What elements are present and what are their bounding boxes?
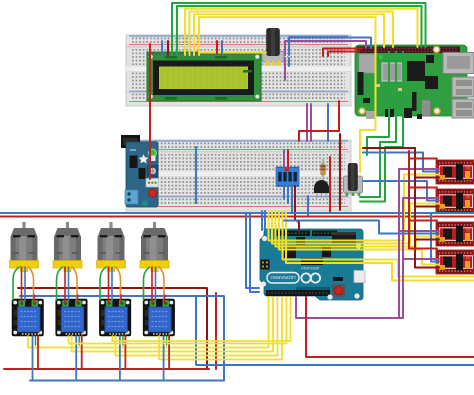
wire xyxy=(339,134,341,210)
wire xyxy=(296,297,403,318)
wire xyxy=(287,186,289,203)
wire xyxy=(0,212,474,214)
wire xyxy=(69,297,287,344)
wire xyxy=(360,52,396,197)
wire xyxy=(399,230,439,232)
wire xyxy=(250,213,259,292)
wire xyxy=(269,175,440,241)
wire xyxy=(164,295,166,303)
wire xyxy=(195,147,197,203)
wire xyxy=(166,336,168,345)
wire xyxy=(155,267,157,301)
wire xyxy=(151,267,153,303)
wire xyxy=(414,148,416,268)
wire xyxy=(415,267,439,269)
power board U2 xyxy=(121,135,159,207)
wire xyxy=(363,147,415,149)
wire xyxy=(409,248,437,250)
wire xyxy=(81,336,83,369)
wire xyxy=(403,258,439,260)
wire xyxy=(116,267,121,300)
wire xyxy=(78,336,80,345)
wire xyxy=(415,206,439,208)
wire xyxy=(327,104,329,141)
raspberry pi U1 xyxy=(355,45,474,119)
wire xyxy=(35,336,37,345)
wire xyxy=(122,336,124,345)
motor M2 xyxy=(53,222,82,272)
wire xyxy=(403,197,439,199)
wire xyxy=(72,267,77,300)
wire xyxy=(159,267,164,300)
wire xyxy=(415,239,439,241)
wire xyxy=(284,221,439,234)
wire xyxy=(306,104,308,141)
resistor R3 xyxy=(320,159,325,182)
transistor Q1 xyxy=(314,180,329,198)
wire xyxy=(75,336,77,381)
wire xyxy=(279,211,439,265)
wire xyxy=(199,17,376,172)
wire xyxy=(120,295,122,303)
wire xyxy=(409,220,437,222)
driver module M4 xyxy=(436,250,474,274)
relay module K3 xyxy=(99,299,130,336)
potentiometer R1 xyxy=(262,28,284,66)
wire xyxy=(328,52,359,57)
wire xyxy=(185,9,418,55)
motor M3 xyxy=(97,222,126,272)
wire xyxy=(415,177,439,179)
wire xyxy=(306,297,474,357)
wire xyxy=(33,295,35,303)
wire xyxy=(288,58,290,66)
wire xyxy=(299,130,339,132)
wire xyxy=(272,204,439,244)
wire xyxy=(111,267,113,301)
relay module K1 xyxy=(12,299,44,336)
wire xyxy=(161,41,163,55)
wire xyxy=(295,186,299,231)
wire xyxy=(264,211,266,230)
wire xyxy=(402,198,404,318)
wire xyxy=(124,336,126,369)
wire xyxy=(119,336,121,381)
wire xyxy=(32,336,34,381)
wire xyxy=(115,297,277,356)
wire xyxy=(37,336,39,369)
wire xyxy=(329,157,331,213)
relay module K4 xyxy=(143,299,175,336)
wire xyxy=(20,296,224,381)
wire xyxy=(64,267,66,303)
wire xyxy=(289,38,371,56)
wire xyxy=(246,213,259,288)
wire xyxy=(167,41,169,55)
wire xyxy=(310,104,312,141)
wire xyxy=(172,3,426,55)
wire xyxy=(284,58,286,80)
wire xyxy=(159,297,282,360)
wire xyxy=(216,41,218,53)
wire xyxy=(144,267,150,300)
wire xyxy=(29,267,34,300)
breadboard BB1 xyxy=(126,35,351,106)
svg-text:ARDUINO: ARDUINO xyxy=(301,266,319,271)
wire xyxy=(363,181,439,201)
wire xyxy=(100,267,106,300)
wire xyxy=(24,267,26,301)
motor M4 xyxy=(140,222,169,272)
wire xyxy=(276,211,440,247)
wire xyxy=(367,52,389,155)
driver module M1 xyxy=(436,160,474,184)
wire xyxy=(30,380,224,382)
wire xyxy=(398,169,400,318)
driver module M2 xyxy=(436,189,474,213)
wire xyxy=(190,12,394,56)
wire xyxy=(200,52,266,54)
wire xyxy=(77,295,79,303)
arduino A1 xyxy=(260,229,365,300)
level converter U3 xyxy=(276,167,299,187)
wire xyxy=(18,288,207,369)
wire xyxy=(409,187,437,189)
wire xyxy=(168,336,170,369)
wire xyxy=(360,52,403,202)
wire xyxy=(409,158,437,160)
breadboard BB2 xyxy=(126,140,351,211)
LCD1 16x2 display xyxy=(147,52,261,101)
wire xyxy=(286,211,474,281)
wire xyxy=(291,186,293,213)
wire xyxy=(112,297,290,341)
wire xyxy=(13,267,19,300)
potentiometer R2 xyxy=(344,163,363,196)
wire xyxy=(21,267,23,303)
wire xyxy=(261,211,263,230)
wire xyxy=(363,153,439,172)
wire xyxy=(323,49,362,57)
wire xyxy=(72,297,273,352)
wire xyxy=(194,14,384,55)
wire xyxy=(68,267,70,301)
wire xyxy=(283,150,285,167)
wire xyxy=(399,168,439,170)
wire xyxy=(285,41,366,55)
wire xyxy=(57,267,63,300)
wire xyxy=(283,211,474,277)
wire xyxy=(338,101,340,131)
wire xyxy=(177,6,422,55)
wire xyxy=(221,41,223,53)
relay module K2 xyxy=(56,299,87,336)
wire xyxy=(163,336,165,381)
wire xyxy=(283,186,285,199)
wire xyxy=(0,216,474,218)
wire xyxy=(408,151,410,249)
wire xyxy=(4,368,209,370)
svg-text:LEONARDO: LEONARDO xyxy=(270,275,296,280)
wire xyxy=(298,131,300,141)
motor M1 xyxy=(10,222,39,272)
driver module M3 xyxy=(436,222,474,246)
wire xyxy=(108,267,110,303)
wire xyxy=(307,196,309,216)
wire xyxy=(196,296,474,365)
wire xyxy=(431,213,439,262)
wire xyxy=(287,150,289,167)
wire xyxy=(149,44,151,179)
wire xyxy=(215,293,217,369)
wire xyxy=(28,297,269,348)
